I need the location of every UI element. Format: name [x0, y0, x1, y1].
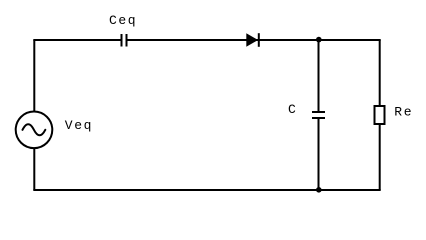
svg-text:Veq: Veq [65, 118, 93, 133]
svg-text:Ceq: Ceq [109, 13, 137, 28]
svg-text:Re: Re [394, 104, 413, 119]
svg-text:C: C [288, 102, 296, 117]
